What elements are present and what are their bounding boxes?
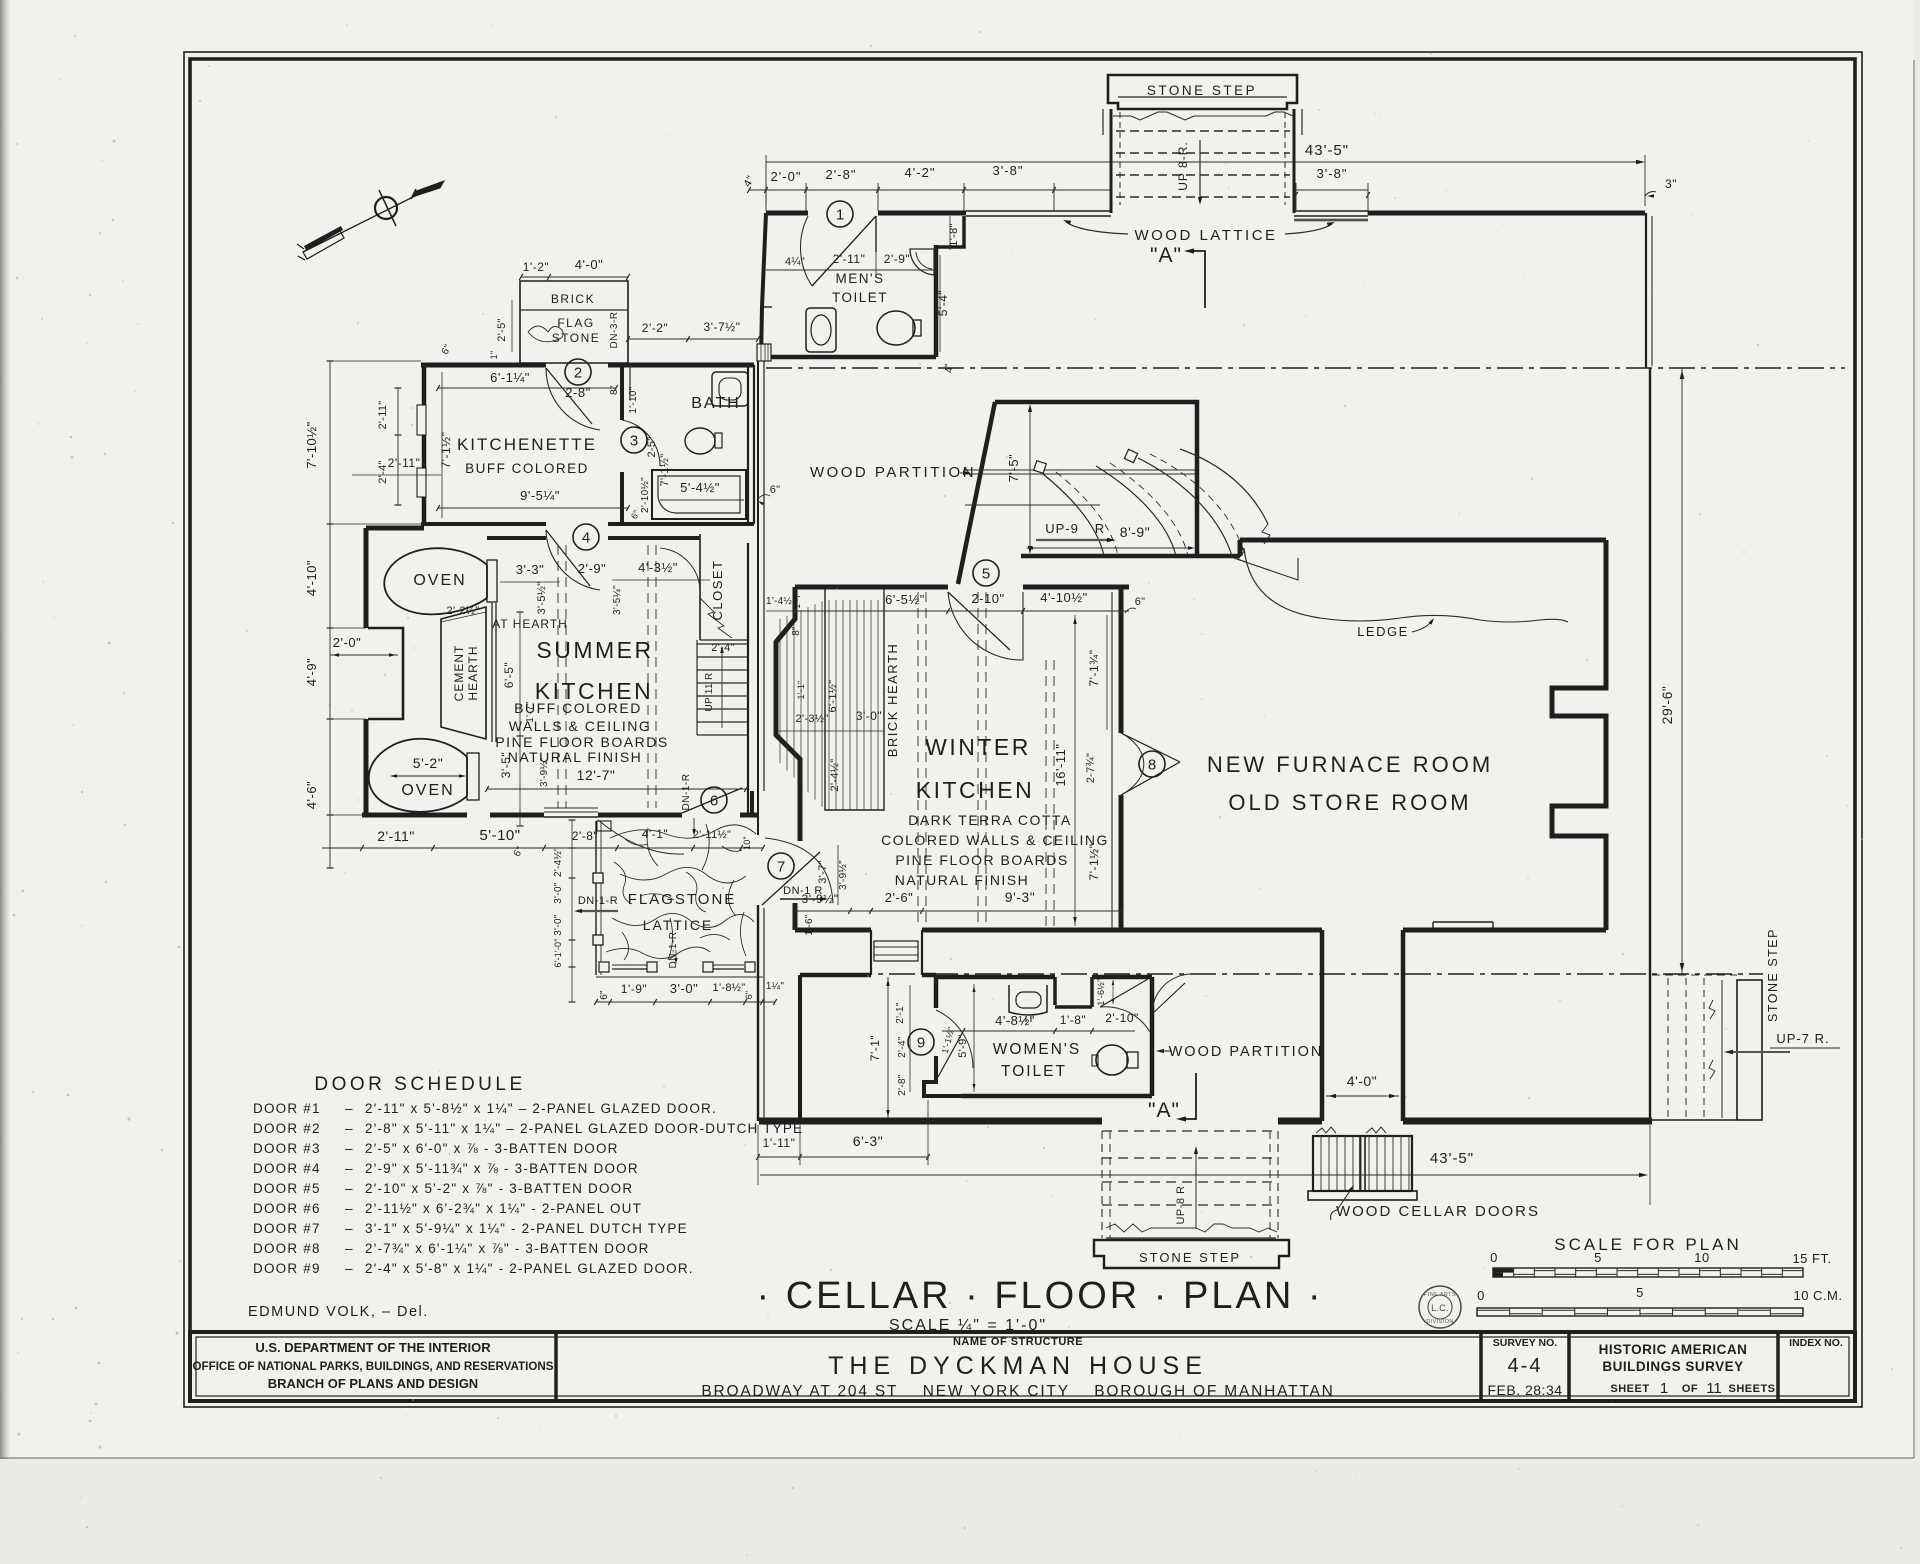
svg-text:SHEETS: SHEETS: [1728, 1383, 1775, 1395]
door number circle 5: [973, 560, 999, 586]
door 9 leaf: [936, 1010, 973, 1077]
svg-text:BATH: BATH: [691, 395, 740, 412]
winter kitchen right dims: [1053, 615, 1107, 926]
svg-text:2'-4": 2'-4": [897, 1036, 908, 1058]
wall: wing south-west: [362, 813, 467, 818]
room: kitchenette walls: [421, 363, 546, 368]
title block frame: [190, 1332, 1855, 1401]
svg-text:AT HEARTH: AT HEARTH: [492, 617, 568, 631]
door schedule: [248, 1074, 803, 1320]
svg-text:STONE STEP: STONE STEP: [1139, 1250, 1241, 1265]
stairs UP-9R curved treads: [1034, 449, 1298, 580]
svg-text:3'-8": 3'-8": [1317, 166, 1348, 181]
wall: passage east: [1401, 930, 1406, 1121]
door number circle 6: [701, 787, 727, 813]
svg-text:PINE FLOOR BOARDS: PINE FLOOR BOARDS: [895, 852, 1068, 868]
svg-text:UP-9: UP-9: [1045, 521, 1079, 536]
brick hearth hatch: [780, 587, 900, 812]
stone step east: [1652, 975, 1762, 1120]
fixture: men's toilet second wc: [877, 311, 921, 345]
svg-text:DIVISION: DIVISION: [1426, 1319, 1453, 1325]
wall: kitchenette west with windows: [422, 365, 427, 405]
svg-text:2'-6": 2'-6": [885, 890, 913, 905]
svg-text:6'-5½": 6'-5½": [885, 592, 925, 607]
svg-text:STONE STEP: STONE STEP: [1766, 928, 1780, 1022]
svg-text:8'-9": 8'-9": [1120, 524, 1150, 540]
fixture: men's toilet water closet: [806, 308, 836, 352]
svg-text:3'-7": 3'-7": [817, 860, 829, 883]
svg-text:6": 6": [770, 484, 781, 496]
svg-text:10": 10": [742, 836, 752, 850]
outer border frame: [184, 52, 1862, 1407]
svg-text:9'-5¼": 9'-5¼": [520, 488, 560, 503]
door arc east of women's toilet: [1152, 974, 1192, 1014]
dim 12'-7": [485, 767, 748, 792]
svg-text:4'-1": 4'-1": [642, 827, 668, 841]
svg-text:SURVEY NO.: SURVEY NO.: [1493, 1337, 1557, 1349]
lattice left dims: [553, 820, 576, 1002]
men's toilet west jog: [762, 306, 772, 308]
dim 1'-11" and 6'-3": [756, 1100, 930, 1185]
svg-text:DN-1-R: DN-1-R: [681, 774, 692, 811]
dims summer kitchen top 3'-3" 3'-5.5" 4'-3.5": [500, 560, 710, 615]
wall: winter kitchen top: [795, 585, 948, 590]
svg-text:7: 7: [777, 859, 785, 876]
svg-text:SCALE FOR PLAN: SCALE FOR PLAN: [1554, 1235, 1742, 1254]
svg-text:2'-4½": 2'-4½": [829, 759, 841, 792]
wall: passage west: [1320, 930, 1325, 1121]
wall: house east wall lower: [1649, 368, 1651, 974]
svg-text:3'-0": 3'-0": [670, 981, 698, 996]
cement hearth: [441, 603, 568, 742]
svg-text:TOILET: TOILET: [1001, 1063, 1067, 1080]
svg-text:–: –: [345, 1161, 353, 1176]
svg-text:1¼": 1¼": [766, 980, 785, 992]
svg-text:SHEET: SHEET: [1610, 1383, 1649, 1395]
furnace small door marks on south wall: [1433, 922, 1493, 930]
svg-text:6'-5": 6'-5": [502, 662, 516, 688]
wood cellar doors: [1308, 1127, 1417, 1200]
svg-text:DOOR #9: DOOR #9: [253, 1261, 321, 1276]
svg-text:2'-11½": 2'-11½": [693, 829, 731, 841]
title: cellar floor plan: [757, 1275, 1324, 1334]
svg-text:2'-2": 2'-2": [642, 321, 668, 335]
room: men's toilet walls: [761, 213, 766, 359]
wood partition rail lines: [963, 469, 1195, 471]
wall: house north wall (east of lattice): [1368, 211, 1645, 216]
flagstone lattice terrace edge: [593, 821, 763, 977]
svg-text:2'-9": 2'-9": [884, 252, 910, 266]
door 5 leaf: [948, 592, 1023, 660]
svg-text:6'-3": 6'-3": [853, 1133, 883, 1149]
svg-text:1'-9": 1'-9": [621, 982, 647, 996]
svg-text:–: –: [345, 1121, 353, 1136]
svg-text:STONE: STONE: [552, 331, 601, 345]
section line A-A upper: [766, 367, 1845, 369]
window west 1: [417, 405, 426, 435]
svg-text:10: 10: [1694, 1250, 1709, 1265]
dim 7'-5" stairs: [1006, 404, 1032, 554]
svg-text:8": 8": [791, 626, 802, 636]
svg-text:BRICK: BRICK: [551, 292, 595, 306]
svg-text:2'-11½" x 6'-2¾" x 1¼" - 2-PAN: 2'-11½" x 6'-2¾" x 1¼" - 2-PANEL OUT: [365, 1201, 642, 1216]
svg-text:NATURAL FINISH: NATURAL FINISH: [508, 749, 643, 765]
svg-text:STONE STEP: STONE STEP: [1147, 83, 1257, 98]
svg-text:4-4: 4-4: [1508, 1355, 1543, 1377]
svg-text:OVEN: OVEN: [401, 782, 454, 799]
scale bar cm: [1477, 1285, 1843, 1316]
svg-text:3'-5¼": 3'-5¼": [611, 585, 623, 615]
dim 3'-7" near door 7: [817, 845, 849, 905]
niche dim 2'-0": [330, 635, 398, 657]
svg-text:5'-2": 5'-2": [413, 755, 443, 771]
svg-text:2'-8" x 5'-11" x 1¼" – 2-PANEL: 2'-8" x 5'-11" x 1¼" – 2-PANEL GLAZED DO…: [365, 1121, 803, 1136]
stoop dims 1'-2" 4'-0": [440, 257, 630, 359]
svg-text:6": 6": [744, 991, 754, 1000]
svg-text:3: 3: [630, 433, 638, 450]
label: wood partition (lower): [1156, 1044, 1323, 1060]
svg-text:4¼": 4¼": [785, 256, 805, 268]
svg-text:3'-9½": 3'-9½": [802, 892, 839, 906]
svg-text:BRICK HEARTH: BRICK HEARTH: [885, 643, 900, 758]
label: wood lattice: [1063, 220, 1335, 244]
door 4 leaf: [546, 530, 600, 590]
wall: furnace room south: [1403, 928, 1606, 933]
svg-text:4'-9": 4'-9": [304, 658, 319, 686]
door NE of women toilet: [1100, 979, 1148, 1007]
svg-text:43'-5": 43'-5": [1305, 142, 1349, 159]
stone step south: [1094, 1131, 1289, 1268]
wall: summer kitchen top band: [421, 522, 546, 526]
door 6 leaf: [681, 774, 742, 836]
svg-text:5'-4": 5'-4": [936, 290, 950, 316]
stone step north: squiggle break line: [1113, 112, 1293, 120]
svg-text:DN-3-R: DN-3-R: [609, 312, 620, 349]
door 2 leaf and arc: [546, 368, 600, 430]
svg-text:2-10": 2-10": [971, 591, 1004, 606]
stone step north: dashed treads: [1116, 130, 1290, 132]
svg-text:2'-9": 2'-9": [578, 561, 606, 576]
dimension 43'-5" top: [766, 142, 1645, 206]
svg-text:THE DYCKMAN HOUSE: THE DYCKMAN HOUSE: [828, 1352, 1208, 1380]
bottom west dims 2'-11" 5'-10": [322, 827, 765, 859]
svg-text:1'-8": 1'-8": [1060, 1013, 1086, 1027]
stone step north: side walls: [1110, 109, 1113, 213]
svg-text:2'-8": 2'-8": [572, 829, 598, 843]
svg-text:4'-2": 4'-2": [905, 165, 936, 180]
svg-text:HISTORIC AMERICAN: HISTORIC AMERICAN: [1599, 1342, 1748, 1357]
svg-text:2'-8": 2'-8": [897, 1074, 908, 1096]
dimension 3" at top right: [1645, 177, 1677, 198]
door 1 leaf and swing: [800, 216, 876, 286]
svg-text:5'-9": 5'-9": [957, 1034, 969, 1057]
women's toilet dims: [868, 977, 1139, 1119]
svg-text:7'-5": 7'-5": [1006, 454, 1021, 482]
svg-text:SUMMER: SUMMER: [536, 637, 653, 663]
wall: inner west (1'-11" thick): [798, 975, 802, 1121]
svg-text:4'-6": 4'-6": [304, 781, 319, 809]
svg-text:2-5": 2-5": [646, 436, 658, 457]
dim 2'-2" 3'-7.5" above bath: [626, 320, 760, 342]
svg-text:INDEX NO.: INDEX NO.: [1789, 1337, 1843, 1349]
svg-text:7'-1": 7'-1": [868, 1035, 882, 1061]
fireplace niche walls: [368, 628, 403, 719]
stairs enclosure walls: [995, 402, 1197, 556]
svg-text:NATURAL FINISH: NATURAL FINISH: [895, 872, 1030, 888]
svg-text:NAME OF STRUCTURE: NAME OF STRUCTURE: [953, 1336, 1083, 1348]
svg-text:CLOSET: CLOSET: [710, 559, 725, 620]
svg-text:3'-1" x 5'-9¼" x 1¼" - 2-PANEL: 3'-1" x 5'-9¼" x 1¼" - 2-PANEL DUTCH TYP…: [365, 1221, 688, 1236]
svg-text:–: –: [345, 1221, 353, 1236]
svg-text:LEDGE: LEDGE: [1357, 624, 1409, 639]
svg-text:0: 0: [1490, 1250, 1498, 1265]
svg-text:4'-10½": 4'-10½": [1040, 590, 1087, 605]
svg-text:BROADWAY AT 204 ST NEW YORK: BROADWAY AT 204 ST NEW YORK CITY BOROUGH…: [701, 1383, 1334, 1400]
svg-text:UP-8 R: UP-8 R: [1175, 1185, 1187, 1224]
wall: winter kitchen west/hearth: [776, 587, 800, 841]
svg-text:HEARTH: HEARTH: [466, 645, 480, 700]
svg-text:WOOD LATTICE: WOOD LATTICE: [1134, 227, 1277, 244]
svg-text:R: R: [1095, 521, 1105, 536]
wall: furnace room east with notches: [1552, 540, 1606, 930]
svg-text:WOOD PARTITION: WOOD PARTITION: [810, 464, 976, 481]
svg-text:DOOR #7: DOOR #7: [253, 1221, 321, 1236]
ledge line: [1244, 548, 1568, 639]
svg-text:2'-8": 2'-8": [826, 167, 857, 182]
svg-text:7'-1¾": 7'-1¾": [1087, 650, 1101, 687]
kitchenette dims: [436, 370, 671, 521]
door number circle 7: [768, 853, 794, 879]
svg-text:OF: OF: [1682, 1383, 1698, 1395]
svg-text:0: 0: [1477, 1288, 1485, 1303]
label: winter kitchen: [881, 734, 1109, 888]
svg-text:1: 1: [1660, 1380, 1668, 1397]
svg-text:1'-8½": 1'-8½": [713, 982, 746, 994]
wall: women's block top: [800, 973, 871, 978]
svg-text:WOOD CELLAR DOORS: WOOD CELLAR DOORS: [1336, 1203, 1540, 1220]
svg-text:BRANCH OF PLANS AND DESIGN: BRANCH OF PLANS AND DESIGN: [268, 1376, 478, 1391]
svg-text:10 C.M.: 10 C.M.: [1793, 1288, 1842, 1303]
wood lattice east segment: [1294, 210, 1368, 212]
stairs UP 11 R: [697, 640, 748, 735]
svg-text:FEB. 28:34: FEB. 28:34: [1487, 1382, 1562, 1398]
svg-text:CEMENT: CEMENT: [452, 645, 466, 702]
svg-text:2'-2½": 2'-2½": [447, 605, 480, 617]
svg-text:UP 8-R.: UP 8-R.: [1176, 141, 1190, 190]
svg-text:3'-5": 3'-5": [499, 752, 513, 778]
door number circle 2: [565, 359, 591, 385]
svg-text:5'-10": 5'-10": [479, 827, 520, 844]
west dimension chain: [304, 361, 421, 868]
svg-text:–: –: [345, 1241, 353, 1256]
wall: house south (east run): [1403, 1118, 1652, 1125]
wall: furnace room top: [1240, 538, 1606, 543]
svg-text:6'-1'-0": 6'-1'-0": [553, 938, 563, 967]
door number circle 1: [827, 201, 853, 227]
svg-text:1'-1": 1'-1": [796, 681, 806, 700]
winter kitchen top dims: [766, 590, 1145, 636]
svg-text:3'-7½": 3'-7½": [704, 320, 741, 334]
svg-text:2'-0": 2'-0": [333, 635, 361, 650]
label: stone step east / UP-7R: [1724, 928, 1840, 1054]
fixture: bath wc: [685, 428, 722, 454]
svg-text:2'-4": 2'-4": [711, 642, 734, 654]
svg-text:9: 9: [917, 1035, 925, 1052]
fixture: men's toilet corner sink: [910, 249, 934, 275]
sheet edge lines: [0, 1457, 1914, 1459]
room: bath walls: [646, 363, 754, 368]
svg-text:L.C.: L.C.: [1431, 1303, 1449, 1313]
room: women's toilet walls: [936, 975, 1055, 980]
svg-text:UP-7 R.: UP-7 R.: [1776, 1031, 1829, 1046]
stone step north: cap: [1103, 75, 1302, 213]
door number circle 8: [1139, 751, 1165, 777]
svg-text:WOMEN'S: WOMEN'S: [993, 1041, 1081, 1058]
svg-text:3'-0": 3'-0": [856, 709, 882, 723]
small vent window in west wall: [757, 344, 771, 361]
label: wood partition (upper): [810, 464, 976, 481]
dim 4'-0" passage: [1326, 1073, 1399, 1098]
title block: name of structure: [701, 1336, 1334, 1400]
wall: house east wall upper: [1645, 213, 1647, 368]
svg-text:6": 6": [599, 990, 610, 1000]
svg-text:11: 11: [1706, 1380, 1722, 1397]
svg-text:3'-9½": 3'-9½": [539, 757, 550, 787]
svg-text:DN-1-R: DN-1-R: [668, 932, 679, 969]
svg-text:3'-5½": 3'-5½": [536, 582, 548, 615]
svg-text:4'-3½": 4'-3½": [638, 560, 678, 575]
svg-text:2'-9" x 5'-11¾" x ⅞ - 3-BATTEN: 2'-9" x 5'-11¾" x ⅞ - 3-BATTEN DOOR: [365, 1161, 639, 1176]
oven upper (egg): [384, 548, 497, 614]
winter kitchen bottom dims: [793, 889, 1123, 936]
wall: winter kitchen east: [1119, 587, 1124, 733]
wall: west outer lower: [757, 905, 759, 1121]
wall: winter kitchen south: [795, 928, 871, 933]
wall: wing west lower: [364, 719, 369, 815]
lattice bottom dims: [594, 980, 784, 1005]
svg-text:15 FT.: 15 FT.: [1792, 1251, 1831, 1266]
svg-text:TOILET: TOILET: [832, 290, 888, 305]
svg-text:6": 6": [1135, 596, 1146, 608]
svg-text:OLD STORE ROOM: OLD STORE ROOM: [1228, 790, 1471, 815]
label: flagstone lattice: [574, 891, 736, 968]
summer kitchen dashed floor lines: [557, 545, 559, 808]
svg-text:1'-6½": 1'-6½": [1096, 978, 1106, 1005]
dim 43'-5" bottom: [760, 1125, 1650, 1205]
section mark A lower: [1148, 1073, 1196, 1122]
svg-text:UP 11 R: UP 11 R: [704, 673, 715, 712]
closet door arc: [660, 548, 700, 592]
svg-text:4'-0": 4'-0": [1347, 1073, 1377, 1089]
svg-text:DOOR #8: DOOR #8: [253, 1241, 321, 1256]
svg-text:KITCHENETTE: KITCHENETTE: [457, 435, 597, 454]
section line A-A lower: [803, 973, 1763, 975]
wall: kitchenette/bath divider: [620, 365, 624, 420]
svg-text:2'-4" x 5'-8" x 1¼" - 2-PANE: 2'-4" x 5'-8" x 1¼" - 2-PANEL GLAZED DOO…: [365, 1261, 694, 1276]
svg-text:MEN'S: MEN'S: [835, 271, 884, 286]
svg-text:2'-11": 2'-11": [377, 400, 389, 429]
svg-text:1": 1": [489, 351, 499, 360]
svg-text:BUILDINGS SURVEY: BUILDINGS SURVEY: [1602, 1359, 1743, 1374]
library of congress stamp: [1419, 1286, 1461, 1328]
door number circle 3: [621, 427, 647, 453]
svg-text:43'-5": 43'-5": [1430, 1150, 1474, 1167]
inner border frame: [190, 59, 1855, 1401]
svg-text:4'-8½": 4'-8½": [995, 1013, 1035, 1028]
wall: house east lower: [1649, 974, 1651, 1121]
svg-text:FINE ARTS: FINE ARTS: [1424, 1292, 1456, 1298]
wood lattice west segment: [966, 210, 1111, 212]
svg-text:7'-1½": 7'-1½": [439, 432, 453, 469]
svg-text:DOOR #3: DOOR #3: [253, 1141, 321, 1156]
men's toilet inner dims: [766, 216, 960, 373]
svg-text:FLAG: FLAG: [557, 316, 594, 330]
svg-text:OFFICE OF NATIONAL PARKS, BUIL: OFFICE OF NATIONAL PARKS, BUILDINGS, AND…: [193, 1360, 554, 1373]
svg-text:2: 2: [574, 365, 582, 382]
door sill to flagstone steps: [544, 807, 598, 809]
svg-text:DOOR #1: DOOR #1: [253, 1101, 321, 1116]
svg-text:3'-0": 3'-0": [553, 914, 564, 936]
svg-text:–: –: [345, 1261, 353, 1276]
wall: house south (middle stub): [1278, 1118, 1322, 1125]
svg-text:1: 1: [836, 207, 844, 224]
title block: survey no: [1487, 1337, 1562, 1398]
svg-text:1'-7: 1'-7: [792, 593, 802, 609]
wall: corner at door 7 top: [750, 791, 754, 815]
svg-text:2'-3½": 2'-3½": [796, 713, 829, 725]
svg-text:3'-8": 3'-8": [993, 163, 1024, 178]
svg-text:DOOR #4: DOOR #4: [253, 1161, 321, 1176]
svg-text:2'-10" x 5'-2" x ⅞" - 3-BATTE: 2'-10" x 5'-2" x ⅞" - 3-BATTEN DOOR: [365, 1181, 633, 1196]
svg-text:3'-0": 3'-0": [553, 882, 564, 904]
svg-text:2'-4½": 2'-4½": [553, 847, 564, 877]
flagstone stoop north of kitchenette: [520, 281, 628, 363]
svg-text:NEW FURNACE ROOM: NEW FURNACE ROOM: [1207, 752, 1493, 777]
svg-text:6'-1¼": 6'-1¼": [490, 370, 530, 385]
north arrow: [297, 181, 444, 260]
svg-text:KITCHEN: KITCHEN: [916, 777, 1034, 803]
title block: habs: [1599, 1342, 1776, 1397]
dim 29'-6": [1659, 368, 1684, 974]
svg-text:5: 5: [1636, 1285, 1644, 1300]
svg-text:–: –: [345, 1181, 353, 1196]
svg-text:12'-7": 12'-7": [577, 767, 616, 783]
inner west dims 2'-11 2'-4: [352, 388, 441, 505]
6" note at house west wall: [757, 484, 780, 505]
svg-text:LATTICE: LATTICE: [643, 917, 714, 933]
window west 2: [417, 468, 426, 497]
oven lower (egg): [369, 739, 479, 812]
passage to women's toilet: [871, 930, 922, 975]
svg-text:29'-6": 29'-6": [1659, 686, 1675, 725]
svg-text:7'-1½": 7'-1½": [1087, 844, 1101, 881]
scale for plan: [1490, 1235, 1831, 1266]
svg-text:2'-11": 2'-11": [377, 828, 415, 844]
door 8 leaf: [1121, 733, 1180, 795]
svg-text:5: 5: [1594, 1250, 1602, 1265]
svg-text:5: 5: [982, 566, 990, 583]
svg-text:WOOD PARTITION: WOOD PARTITION: [1169, 1044, 1324, 1060]
section mark A upper: [1150, 244, 1205, 308]
svg-text:"A": "A": [1148, 1099, 1180, 1122]
svg-text:DARK TERRA COTTA: DARK TERRA COTTA: [908, 812, 1072, 828]
wall: house west wall (hall strip): [757, 361, 759, 835]
svg-text:4'-0": 4'-0": [575, 257, 603, 272]
svg-text:2'-5": 2'-5": [496, 318, 508, 341]
svg-text:1'-2": 1'-2": [523, 260, 549, 274]
svg-text:3'-3": 3'-3": [516, 562, 544, 577]
svg-text:1'-6": 1'-6": [804, 914, 815, 936]
